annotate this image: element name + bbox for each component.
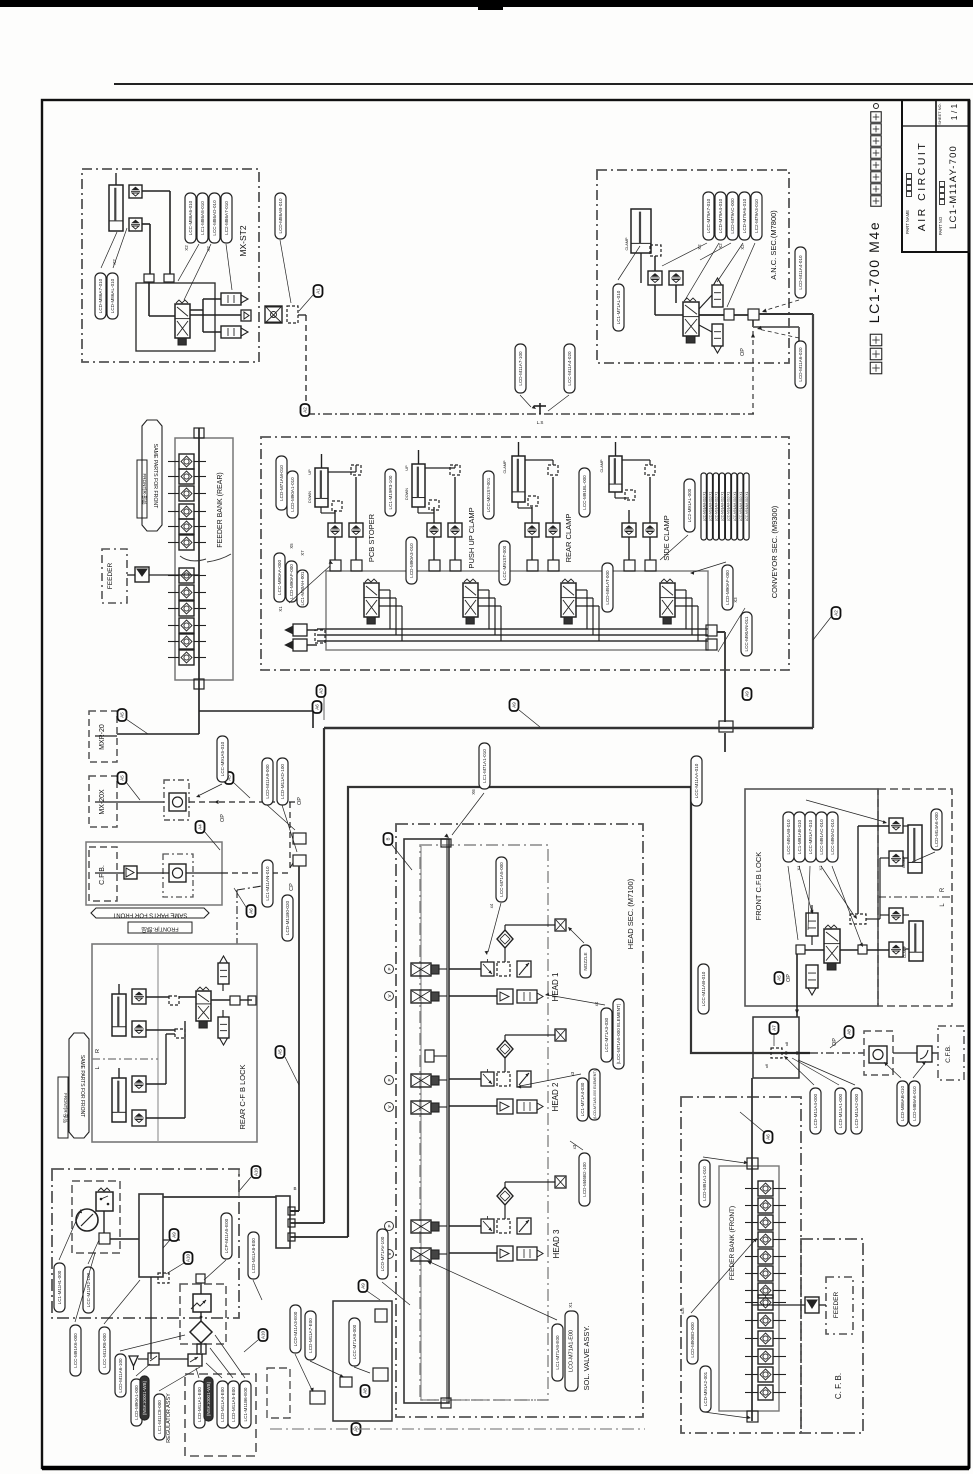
wire cylinder ports	[417, 507, 419, 513]
label pill LCC-M91BL-000	[579, 468, 590, 517]
feeder valve F9	[758, 1313, 773, 1328]
coupler dashed	[287, 306, 298, 323]
manifold bottom fitting	[441, 1398, 451, 1408]
svg-text:LC1-M86A8-010: LC1-M86A8-010	[200, 201, 205, 235]
junction dashed b	[175, 1029, 185, 1038]
label pill LCD-M11B0-020	[282, 895, 293, 941]
cylinder L	[909, 921, 923, 961]
wire feeder to bus	[127, 574, 135, 576]
svg-text:LCC-M71A5-000: LCC-M71A5-000	[499, 862, 504, 897]
node ref A2	[301, 404, 310, 416]
svg-text:A6: A6	[766, 1134, 771, 1140]
svg-text:FRONT|R-部品: FRONT|R-部品	[62, 1093, 69, 1123]
label pill LCC-M91AC-010	[816, 812, 827, 862]
wire HEAD 3 row1	[449, 1225, 481, 1227]
svg-text:P: P	[387, 967, 392, 970]
label pill LCC-M91AM-010 X1	[707, 473, 712, 540]
svg-text:LCC-M86AD-010: LCC-M86AD-010	[212, 200, 217, 236]
junction fitting	[144, 274, 154, 282]
label pill LCO-M71AV-100	[377, 1229, 388, 1279]
valve 5-port SIDE CLAMP	[660, 583, 675, 617]
wire feeder front	[752, 1304, 805, 1306]
wire main vertical to SOL	[323, 728, 325, 1223]
inner assembly box	[136, 283, 215, 351]
valve 5-port PCB STOPER	[364, 583, 379, 617]
feeder valve F4	[758, 1232, 773, 1247]
wire cylinder ports	[614, 492, 616, 498]
svg-text:SAME PARTS FOR FRONT: SAME PARTS FOR FRONT	[152, 444, 158, 509]
svg-text:UP: UP	[308, 469, 312, 475]
svg-text:L.S: L.S	[537, 420, 544, 425]
svg-text:A5: A5	[777, 975, 782, 981]
wire bus to MXR row	[199, 710, 313, 712]
wire	[433, 537, 435, 560]
node ref A9	[743, 688, 752, 700]
svg-text:LCC-M71A3-030: LCC-M71A3-030	[604, 1017, 609, 1052]
check valve A	[328, 523, 342, 537]
feeder valve F8	[758, 1295, 773, 1310]
svg-text:FRONT|R-部品: FRONT|R-部品	[141, 473, 148, 504]
svg-text:X7: X7	[300, 550, 305, 556]
svg-text:LCD-M86AB-010: LCD-M86AB-010	[900, 1086, 905, 1121]
svg-text:LCO-M71AV-100: LCO-M71AV-100	[380, 1236, 385, 1271]
label pill LCD-M71AM-010	[276, 456, 287, 510]
label pill LCD-M11A4-E00	[217, 1381, 228, 1428]
tab marks	[288, 1207, 295, 1215]
manifold inner line	[420, 846, 422, 1400]
wire main supply right	[759, 313, 813, 315]
wire HEAD 1 row1	[449, 968, 481, 970]
svg-text:LCD-M86AB-010: LCD-M86AB-010	[278, 198, 283, 233]
svg-text:C. F. B.: C. F. B.	[834, 1373, 843, 1399]
svg-text:A8: A8	[363, 1388, 368, 1394]
check valves rear L	[132, 1076, 146, 1092]
svg-text:LC1-M71A1-010: LC1-M71A1-010	[482, 749, 487, 783]
svg-text:A9: A9	[512, 702, 517, 708]
svg-text:A2: A2	[303, 407, 308, 413]
pressure gauge	[76, 1209, 98, 1231]
label pill (NSK10001-WB)	[140, 1376, 149, 1420]
cylinder SIDE CLAMP	[609, 456, 622, 492]
wire	[355, 477, 357, 523]
svg-text:LCD-M46B2-100: LCD-M46B2-100	[582, 1162, 587, 1197]
valve 5-port MX-ST2	[175, 304, 190, 338]
svg-text:LCD-M90A1-000: LCD-M90A1-000	[134, 1385, 139, 1420]
svg-text:LCC-M91K6-000: LCC-M91K6-000	[73, 1333, 78, 1368]
wire drain	[138, 1358, 148, 1360]
wire	[734, 314, 748, 316]
svg-text:LCD-M11A9-000: LCD-M11A9-000	[265, 764, 270, 799]
svg-text:LCC-M91AM-010 X1: LCC-M91AM-010 X1	[702, 491, 706, 521]
svg-text:LC1-M11B6-E00: LC1-M11B6-E00	[243, 1387, 248, 1421]
check valve triangle	[124, 866, 137, 879]
label pill LCD-M11AD-100	[277, 758, 288, 805]
gray dashdot bottom	[270, 1428, 645, 1430]
wire	[200, 1343, 202, 1353]
section box CFB right	[938, 1026, 964, 1080]
wire conveyor to main	[717, 631, 725, 633]
inner dash-dot box	[420, 845, 548, 1400]
wire	[531, 507, 533, 523]
svg-text:FRONT|R-部品: FRONT|R-部品	[141, 926, 179, 934]
label pill LCD-M14A6-000	[931, 809, 942, 850]
hex label SAME PARTS (rear)	[69, 1033, 89, 1138]
svg-text:(NSK10001-WB): (NSK10001-WB)	[206, 1381, 211, 1416]
check valve A	[525, 523, 539, 537]
node ref A6	[764, 1131, 773, 1143]
svg-text:DOWN: DOWN	[308, 491, 312, 503]
valve 5-port rear cfb	[196, 991, 211, 1021]
label pill LCD-M90BD-000	[687, 1316, 698, 1364]
label pill LCD-M11A1-E00	[194, 1381, 205, 1428]
label pill LCC-M91AM-010 X1	[738, 473, 743, 540]
sol valve P	[411, 1220, 431, 1233]
svg-text:LCD-M14A6-000: LCD-M14A6-000	[934, 812, 939, 847]
svg-text:X5: X5	[289, 543, 294, 549]
fitting outside	[310, 1391, 325, 1404]
junction dashed on bus	[771, 1048, 782, 1058]
svg-text:CLAMP: CLAMP	[903, 945, 907, 958]
wire stub below junction	[724, 733, 726, 752]
wire manifold down	[150, 1277, 152, 1359]
svg-text:R: R	[95, 1049, 101, 1053]
fitting dashed	[528, 496, 538, 506]
label pill LC2-M91AL-000	[684, 479, 695, 532]
svg-text:LC1-M11H1-000: LC1-M11H1-000	[57, 1270, 62, 1304]
label pill LCD-M86A6-010	[909, 1081, 920, 1126]
svg-text:A2: A2	[834, 610, 839, 616]
svg-text:LCD-M90A1-010: LCD-M90A1-010	[290, 477, 295, 512]
manifold box	[326, 571, 708, 650]
label pill LCD-M11A1-000	[835, 1088, 846, 1134]
wire	[654, 256, 656, 271]
svg-text:FEEDER BANK (FRONT): FEEDER BANK (FRONT)	[729, 1206, 736, 1280]
node ref A5	[118, 772, 127, 784]
sol valve P	[411, 1074, 431, 1087]
svg-text:OP: OP	[220, 814, 226, 822]
manifold fitting 2	[548, 560, 559, 571]
svg-text:LCC-M11A4-020: LCC-M11A4-020	[567, 351, 572, 386]
label pill (NSK10001-WB)	[204, 1377, 213, 1421]
wires sol box	[290, 1222, 324, 1224]
svg-text:LCC-M90AA-000: LCC-M90AA-000	[277, 560, 282, 595]
label pill LCC-M79A7-010	[703, 192, 714, 240]
label pill LCD-M11A4-010	[795, 247, 806, 298]
svg-text:PUSH UP CLAMP: PUSH UP CLAMP	[467, 507, 476, 568]
section box MX-20X front	[864, 1031, 893, 1075]
svg-text:LCO-M71A1-E00: LCO-M71A1-E00	[569, 1330, 575, 1372]
wire to manifold	[110, 1238, 139, 1240]
label pill LCD-M90A3-010	[406, 537, 417, 584]
svg-text:LC1-M11C8-000: LC1-M11C8-000	[157, 1400, 162, 1434]
sol valve V	[411, 1101, 431, 1114]
feeder valve F6	[758, 1266, 773, 1281]
circle valve front	[869, 1046, 887, 1063]
wire dashdot rear-cfb link	[236, 890, 238, 944]
svg-text:X2: X2	[184, 245, 189, 251]
wire supply down right side	[812, 314, 814, 728]
wire	[675, 285, 677, 303]
feeder valve R12	[179, 650, 194, 665]
node ref A6	[247, 905, 256, 917]
label pill LCC-M91AM-010 X1	[725, 473, 730, 540]
svg-text:LC1-M19R3-100: LC1-M19R3-100	[388, 475, 393, 509]
wire diamond	[504, 1058, 506, 1072]
label pill LCD-M90A1-000	[131, 1379, 142, 1426]
wire	[454, 537, 456, 560]
manifold mid fitting	[425, 1050, 434, 1062]
bottom inner dashdot	[420, 1399, 548, 1401]
label pill LCD-M46B2-100	[579, 1153, 590, 1206]
node ref A6	[313, 701, 322, 713]
wire	[649, 537, 651, 560]
svg-text:A6: A6	[315, 704, 320, 710]
section box L R dashed	[878, 789, 952, 1006]
label pill LCD-M86AB-010	[275, 193, 286, 239]
svg-text:LCC-M91AB-010: LCC-M91AB-010	[786, 819, 791, 854]
svg-text:OP: OP	[297, 797, 303, 805]
svg-text:LCD-M91A2-001: LCD-M91A2-001	[703, 1371, 708, 1406]
wire	[433, 507, 435, 523]
svg-text:LCC-M11R8-000: LCC-M11R8-000	[102, 1333, 107, 1368]
wire row2	[449, 1252, 497, 1254]
feeder valve symbol front	[805, 1297, 819, 1313]
svg-text:A5: A5	[278, 1049, 283, 1055]
throttle valve	[481, 1072, 494, 1086]
manifold bus double line	[446, 839, 448, 1403]
outlet fitting	[241, 310, 251, 321]
wire dashdot to MX20X front	[810, 1052, 864, 1054]
label pill LCD-M79A4-010	[715, 192, 726, 240]
check valve A	[622, 523, 636, 537]
svg-text:MX-ST2: MX-ST2	[238, 225, 248, 256]
manifold fitting 2	[351, 560, 362, 571]
label pill LCD-M11A7-100	[515, 344, 526, 393]
cylinder R	[908, 825, 922, 873]
label pill LCC-M91AM-010 X1	[719, 473, 724, 540]
svg-text:LCD-M11A5-E00: LCD-M11A5-E00	[231, 1387, 236, 1422]
divider	[157, 944, 159, 1142]
label pill LCC-M90AN-011	[741, 612, 752, 656]
feeder valve F3	[758, 1215, 773, 1230]
section box MX-ST2	[82, 169, 259, 362]
node ref A10	[252, 1166, 261, 1178]
connector block	[276, 1196, 290, 1248]
wire	[142, 190, 170, 192]
fitting dashed	[625, 490, 635, 500]
manifold top notch	[441, 839, 451, 847]
svg-text:LC1-M11AY-700: LC1-M11AY-700	[948, 145, 959, 229]
label pill LCD-M90AF-000	[722, 565, 733, 610]
bus outlet fitting lower	[706, 639, 717, 650]
wire	[334, 510, 336, 523]
label pill LCD-M86AL-010	[107, 273, 118, 319]
wires rear cfb	[146, 996, 169, 998]
section box ANC SEC M7800	[597, 170, 789, 363]
label pill LCD-M91A2-001	[700, 1366, 711, 1412]
feeder valve F1	[758, 1181, 773, 1196]
svg-text:LCD-M79A6-010: LCD-M79A6-010	[742, 198, 747, 233]
leaders	[786, 1058, 814, 1085]
cylinder rear R	[112, 994, 126, 1036]
manifold fitting 2	[645, 560, 656, 571]
hex label SAME PARTS FOR FRONT (mid)	[91, 908, 209, 918]
svg-text:A9: A9	[361, 1283, 366, 1289]
feeder valve R6	[179, 535, 194, 550]
section box FRONT CFB LOCK	[745, 789, 878, 1006]
svg-text:LCC-M86A6-010: LCC-M86A6-010	[188, 200, 193, 235]
filter upper rear	[218, 963, 229, 984]
manifold block regulator	[139, 1194, 163, 1277]
wire	[531, 537, 533, 560]
node letter P	[385, 965, 394, 974]
label pill LCC-M91AB-010	[783, 812, 794, 862]
bus feeder front	[751, 1078, 753, 1421]
wire switch down	[103, 1211, 105, 1233]
label pill LCC-M11R2-100	[83, 1267, 94, 1313]
sol valve P	[411, 963, 431, 976]
sol valve V	[411, 990, 431, 1003]
pressure unit	[517, 961, 531, 977]
svg-text:REAR C-F B LOCK: REAR C-F B LOCK	[238, 1064, 247, 1129]
check valves rear R	[132, 989, 146, 1004]
label pill LCD-M11A8-E00	[248, 1232, 259, 1279]
frame bottom heavy edge	[42, 1466, 969, 1471]
wire cylinder ports	[320, 507, 322, 513]
label pill LCC-M91AM-010 X1	[732, 473, 737, 540]
FEEDER dashed box front	[826, 1277, 853, 1334]
filter unit dashed box	[180, 1284, 226, 1344]
wire down from junctions	[298, 866, 300, 1211]
feeder valve R8	[179, 585, 194, 600]
fitting under diamond	[197, 1344, 206, 1354]
label pill LCC-M71A3-030	[601, 1008, 612, 1062]
label pill LCD-M79AC-000	[727, 192, 738, 240]
section box REAR CFB LOCK	[92, 944, 257, 1142]
bus line 3	[317, 640, 708, 642]
svg-text:PART NAME: PART NAME	[905, 210, 910, 234]
feeder valve F12	[758, 1367, 773, 1382]
label pill LCC-M91AM-010 X1	[701, 473, 706, 540]
label pill LCC-M71A8-000	[349, 1318, 360, 1366]
leader lines front cfb	[788, 866, 798, 940]
svg-text:(LCD-M71A5-000 ELEMENT): (LCD-M71A5-000 ELEMENT)	[593, 1070, 597, 1119]
svg-text:X1: X1	[568, 1302, 573, 1308]
svg-text:LC1-M91AB-010: LC1-M91AB-010	[797, 819, 802, 854]
wire valve to bus	[478, 589, 489, 591]
wire branch OP	[752, 320, 754, 327]
label pill (LCC-M71A5-000 ELEMENT)	[613, 999, 624, 1069]
svg-text:X3: X3	[733, 597, 738, 603]
section box CFB front	[801, 1239, 863, 1433]
svg-text:LC1-M11AN-010: LC1-M11AN-010	[265, 866, 270, 901]
wire dashed vert	[289, 802, 291, 868]
label pill LCD-M90AF-000	[286, 561, 297, 602]
svg-text:CLAMP: CLAMP	[503, 460, 507, 474]
label pill LC1-M91AB-010	[794, 812, 805, 862]
label pill LCC-M86AD-010	[209, 193, 220, 243]
junction block box	[753, 1017, 799, 1078]
svg-text:HEAD SEC. (M7100): HEAD SEC. (M7100)	[626, 878, 635, 949]
svg-text:LCD-M11A4-010: LCD-M11A4-010	[798, 255, 803, 290]
label pill LC1-M71AL-010	[613, 284, 624, 331]
check valve B	[643, 523, 657, 537]
sol valve V	[411, 1248, 431, 1261]
svg-text:LC2-M79A3-010: LC2-M79A3-010	[754, 199, 759, 233]
ejector box	[497, 989, 513, 1004]
svg-text:P: P	[387, 1224, 392, 1227]
svg-text:PCB STOPER: PCB STOPER	[367, 513, 376, 562]
check valve unit	[265, 306, 282, 323]
node ref A5	[118, 709, 127, 721]
feeder valve R4	[179, 504, 194, 519]
label pill LCC-M91A7-010	[805, 812, 816, 862]
svg-text:OP: OP	[832, 1038, 838, 1046]
node ref A8	[845, 1026, 854, 1038]
svg-text:LCP-M11A5-E00: LCP-M11A5-E00	[224, 1218, 229, 1253]
node ref A8	[361, 1385, 370, 1397]
node letter V	[385, 1103, 394, 1112]
nozzle box	[555, 1029, 566, 1041]
wire	[654, 285, 656, 315]
feeder valve R1	[179, 454, 194, 469]
svg-text:SAME PARTS FOR FRONT: SAME PARTS FOR FRONT	[112, 912, 187, 918]
junction dashed	[850, 914, 866, 924]
svg-text:LCC-M91AM-010 X1: LCC-M91AM-010 X1	[745, 491, 749, 521]
label pill LCD-M11A9-000	[262, 758, 273, 805]
node letter V	[385, 992, 394, 1001]
wire	[552, 477, 554, 523]
box label FRONT rear	[58, 1077, 68, 1138]
svg-text:LCD-M11A1-000: LCD-M11A1-000	[838, 1093, 843, 1128]
svg-text:OP: OP	[786, 974, 792, 982]
junction fitting	[796, 945, 805, 954]
label pill LC1-M11AN-010	[262, 860, 273, 907]
feeder valve F10	[758, 1331, 773, 1346]
svg-text:LCD-M86A6-010: LCD-M86A6-010	[912, 1086, 917, 1121]
drain fitting	[148, 1353, 159, 1365]
fitting top right dashed	[450, 465, 460, 475]
svg-text:LCD-M11A7-100: LCD-M11A7-100	[518, 351, 523, 386]
svg-text:LC1-M71A4-030: LC1-M71A4-030	[580, 1082, 585, 1116]
section box CFB left	[89, 847, 117, 901]
valve 5-port front cfb	[824, 929, 840, 963]
svg-text:A8: A8	[354, 1426, 359, 1432]
svg-text:LCC-M91AM-010 X1: LCC-M91AM-010 X1	[715, 491, 719, 521]
label pill LCC-M86A6-010	[185, 193, 196, 243]
coupler dashed	[497, 1219, 510, 1233]
svg-text:LCC-M91A7-010: LCC-M91A7-010	[808, 819, 813, 854]
top rule line	[114, 83, 973, 85]
node ref A5	[775, 972, 784, 984]
drain valve	[188, 1354, 202, 1366]
svg-text:LCD-M79AC-000: LCD-M79AC-000	[730, 198, 735, 234]
svg-text:FEEDER BANK (REAR): FEEDER BANK (REAR)	[217, 472, 224, 547]
svg-text:A4: A4	[198, 824, 203, 830]
svg-text:(NSK10001-WB): (NSK10001-WB)	[142, 1380, 147, 1415]
wires rear cfb lower	[146, 1083, 166, 1085]
svg-text:LCC-M91AM-010 X1: LCC-M91AM-010 X1	[708, 491, 712, 521]
wire row2	[449, 1105, 497, 1107]
svg-text:LCC-M90AD-010: LCC-M90AD-010	[830, 819, 835, 855]
svg-text:LC1-700 M4e: LC1-700 M4e	[866, 221, 882, 323]
circle valve unit	[163, 854, 193, 897]
svg-text:FEEDER: FEEDER	[107, 563, 114, 590]
page top scan bar	[0, 0, 973, 7]
wire long to connector block	[163, 1196, 276, 1198]
box label FRONT R	[137, 460, 147, 518]
label pill LCC-M91A5-010	[217, 736, 228, 782]
